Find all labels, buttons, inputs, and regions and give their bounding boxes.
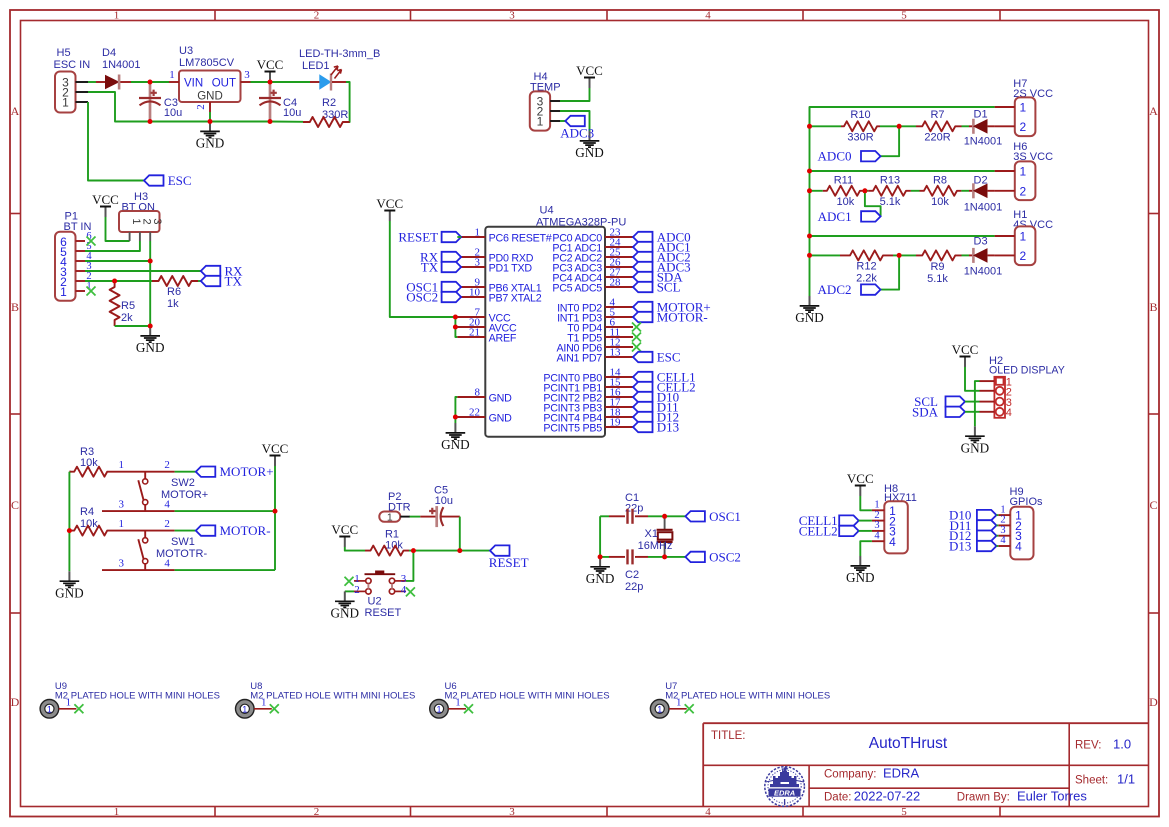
wire VCC to H8.1 <box>860 496 872 510</box>
junction AREF <box>453 325 458 330</box>
svg-text:ADC1: ADC1 <box>818 209 852 224</box>
svg-text:GND: GND <box>136 340 165 355</box>
U3 pin 1 <box>169 81 179 83</box>
junction bus row1 <box>807 124 812 129</box>
svg-text:M2 PLATED HOLE WITH MINI HOLES: M2 PLATED HOLE WITH MINI HOLES <box>55 691 220 702</box>
svg-text:OSC1: OSC1 <box>709 509 741 524</box>
no-connect U4 pin 11 <box>632 333 641 342</box>
no-connect P1.6 <box>87 237 96 246</box>
wire bus R3 <box>69 471 71 473</box>
net flag ESC <box>144 175 164 185</box>
svg-text:R10: R10 <box>850 109 870 121</box>
ground reset <box>344 591 346 601</box>
svg-text:4: 4 <box>705 10 711 22</box>
svg-text:1: 1 <box>455 698 460 709</box>
net flag RX to U4 <box>442 252 462 262</box>
svg-text:1: 1 <box>676 698 681 709</box>
svg-text:3: 3 <box>118 558 124 570</box>
wire U2.2 to gnd <box>345 590 354 592</box>
wire R5 to gnd <box>115 325 151 327</box>
resistor R2 <box>303 117 350 127</box>
net flag TX <box>201 276 221 286</box>
U4 pin 10 PB7 XTAL2 <box>457 296 485 298</box>
wire D10 <box>996 514 998 516</box>
junction bus row3b <box>807 253 812 258</box>
U4 pin 6 T0 PD4 <box>605 326 633 328</box>
connector H3 BT ON <box>119 211 160 232</box>
svg-text:4: 4 <box>164 499 170 511</box>
net flag SCL <box>946 396 966 406</box>
VCC symbol HX711 <box>859 486 861 497</box>
svg-text:Sheet:: Sheet: <box>1075 775 1108 787</box>
connector H8 HX711 <box>884 501 908 553</box>
net flag OSC2 to U4 <box>442 292 462 302</box>
junction ADC2 <box>897 253 902 258</box>
svg-text:LM7805CV: LM7805CV <box>179 57 235 69</box>
connector P2 DTR <box>379 512 400 522</box>
wire bus to R10 <box>810 125 842 127</box>
wire D12 <box>996 535 998 537</box>
svg-text:3: 3 <box>509 10 515 22</box>
svg-text:10k: 10k <box>837 196 855 208</box>
svg-text:21: 21 <box>469 327 480 339</box>
U4 pin 23 PC0 ADC0 <box>605 236 633 238</box>
P1 pin stubs <box>76 240 86 242</box>
wire LED to R2 <box>346 82 350 122</box>
P2 pin stub <box>400 516 410 518</box>
svg-text:MOTOR-: MOTOR- <box>220 523 271 538</box>
svg-text:R6: R6 <box>167 286 181 298</box>
wire C1 to OSC1 <box>648 515 685 517</box>
svg-text:VCC: VCC <box>92 192 119 207</box>
svg-text:U2: U2 <box>368 596 382 608</box>
svg-text:GND: GND <box>441 437 470 452</box>
wire P1.3 RX <box>85 270 201 272</box>
svg-text:OSC2: OSC2 <box>406 290 438 305</box>
junction C3 bottom <box>148 119 153 124</box>
connector H7 2S VCC <box>1015 97 1036 136</box>
svg-text:Company:: Company: <box>824 769 876 781</box>
VCC symbol reset <box>344 537 346 548</box>
svg-text:1N4001: 1N4001 <box>964 202 1003 214</box>
svg-text:1: 1 <box>60 285 67 299</box>
ground switches <box>68 571 70 581</box>
svg-text:2: 2 <box>1019 184 1026 198</box>
wire P2 to C5 <box>410 516 421 518</box>
U9 pin stub <box>59 708 77 710</box>
svg-text:GND: GND <box>961 441 990 456</box>
svg-text:2022-07-22: 2022-07-22 <box>854 789 921 804</box>
diode D4 <box>106 76 119 89</box>
ground U4 <box>454 423 456 433</box>
svg-text:2: 2 <box>314 10 320 22</box>
svg-text:ESC: ESC <box>657 350 681 365</box>
U4 pin 28 PC5 ADC5 <box>605 286 633 288</box>
svg-text:22: 22 <box>469 407 480 419</box>
svg-text:VCC: VCC <box>576 63 603 78</box>
svg-text:220R: 220R <box>924 132 950 144</box>
junction C3 top <box>148 80 153 85</box>
svg-text:VCC: VCC <box>952 342 979 357</box>
capacitor C5 <box>435 506 438 527</box>
U4 pin 19 PCINT5 PB5 <box>605 426 633 428</box>
svg-text:MOTOR-: MOTOR- <box>657 310 708 325</box>
wire P1.2 to R6 <box>85 280 152 282</box>
wire bus to R12 <box>810 254 841 256</box>
svg-text:ADC0: ADC0 <box>818 149 852 164</box>
svg-text:GND: GND <box>196 136 225 151</box>
svg-text:RESET: RESET <box>489 555 529 570</box>
net flag CELL2 <box>839 526 859 536</box>
ground OLED <box>974 426 976 436</box>
U4 pin 26 PC3 ADC3 <box>605 266 633 268</box>
svg-text:R11: R11 <box>834 174 853 186</box>
junction bus row2b <box>807 188 812 193</box>
svg-text:TITLE:: TITLE: <box>711 730 746 742</box>
net flag D10 <box>633 392 653 402</box>
wire to ADC0 flag <box>881 126 900 156</box>
net flag MOTOR- <box>196 525 216 535</box>
wire CELL2 <box>859 530 872 532</box>
svg-text:2: 2 <box>314 806 320 818</box>
svg-text:28: 28 <box>610 277 622 289</box>
U4 pin 9 PB6 XTAL1 <box>457 286 485 288</box>
svg-text:GND: GND <box>846 570 875 585</box>
wire H4.1 to ADC3 <box>560 120 565 122</box>
wire SW1.4 to VCC bus <box>175 569 275 571</box>
capacitor C3 <box>149 82 152 122</box>
svg-text:2: 2 <box>1019 120 1026 134</box>
U4 pin 3 PD1 TXD <box>457 266 485 268</box>
svg-text:D13: D13 <box>949 539 971 554</box>
svg-text:GND: GND <box>489 413 513 425</box>
svg-text:1: 1 <box>387 511 393 523</box>
U4 pin 7 VCC <box>457 316 485 318</box>
H9 pin stubs <box>998 514 1010 516</box>
VCC symbol <box>269 72 271 83</box>
resistor R4 <box>69 526 112 536</box>
svg-text:2: 2 <box>354 584 360 596</box>
svg-text:GND: GND <box>795 310 824 325</box>
VCC symbol U4 <box>389 211 391 222</box>
net flag ADC0 <box>633 232 653 242</box>
svg-text:4: 4 <box>1006 407 1012 419</box>
svg-text:LED1: LED1 <box>302 60 330 72</box>
wire D13 <box>996 545 998 547</box>
U2 pins <box>366 578 371 583</box>
wire C5 to RESET net <box>459 517 461 551</box>
svg-text:2: 2 <box>164 518 170 530</box>
wire D4 to VIN <box>131 81 169 83</box>
svg-text:A: A <box>11 104 20 118</box>
svg-text:3: 3 <box>151 218 163 224</box>
wire H2.1 to gnd <box>975 381 980 426</box>
wire to U2.3 <box>406 551 413 581</box>
junction ADC1 <box>862 188 867 193</box>
H6 pin stubs <box>995 170 1015 172</box>
resistor R3 <box>69 467 112 477</box>
U4 pin 25 PC2 ADC2 <box>605 256 633 258</box>
resistor R9 <box>916 250 962 260</box>
wire U3 pin2 to rail <box>209 112 211 122</box>
svg-text:1: 1 <box>66 698 71 709</box>
net flag MOTOR+ <box>196 467 216 477</box>
svg-text:10u: 10u <box>435 495 453 507</box>
junction BT ON <box>148 259 153 264</box>
svg-text:GND: GND <box>55 586 84 601</box>
wire H8.4 to gnd <box>860 541 872 556</box>
svg-text:GND: GND <box>575 145 604 160</box>
svg-text:1: 1 <box>130 218 142 224</box>
svg-text:1N4001: 1N4001 <box>964 266 1003 278</box>
svg-text:REV:: REV: <box>1075 740 1101 752</box>
LED LED1 <box>310 81 320 83</box>
U4 pin 18 PCINT4 PB4 <box>605 416 633 418</box>
svg-text:R9: R9 <box>930 261 944 273</box>
diode D4 leads <box>96 81 106 83</box>
svg-text:ADC3: ADC3 <box>560 126 594 141</box>
resistor R11 <box>823 186 864 196</box>
junction crystal gnd <box>598 554 603 559</box>
junction ADC0 <box>897 124 902 129</box>
net flag ADC1 shape <box>861 211 881 221</box>
net flag CELL1 <box>839 515 859 525</box>
U4 pin 1 PC6 RESET# <box>457 236 485 238</box>
net flag D13 to H9 <box>977 541 997 551</box>
net flag ADC1 <box>633 242 653 252</box>
svg-text:1: 1 <box>169 69 175 81</box>
U2 pin stubs <box>354 580 366 582</box>
svg-text:B: B <box>1149 300 1157 314</box>
svg-text:3: 3 <box>475 257 481 269</box>
svg-text:16MHz: 16MHz <box>638 540 673 552</box>
net flag OSC2 <box>685 552 705 562</box>
junction C4 top <box>268 80 273 85</box>
svg-text:X1: X1 <box>645 528 658 540</box>
border column ticks <box>214 10 216 21</box>
svg-text:PC6 RESET#: PC6 RESET# <box>489 233 552 245</box>
H4 pin stubs <box>550 100 560 102</box>
wire U4 pin8 gnd <box>455 397 457 417</box>
no-connect U8 <box>270 704 279 713</box>
wire U4 pin22 gnd <box>455 417 457 423</box>
svg-text:R12: R12 <box>856 260 876 272</box>
svg-text:M2 PLATED HOLE WITH MINI HOLES: M2 PLATED HOLE WITH MINI HOLES <box>665 691 830 702</box>
diode D2 <box>972 183 975 198</box>
title block outline <box>703 723 1148 806</box>
resistor R7 <box>916 121 962 131</box>
svg-text:22p: 22p <box>625 581 643 593</box>
net flag ADC3 <box>633 262 653 272</box>
switch SW2 row2 <box>102 510 175 512</box>
net flag RESET shape <box>490 545 510 555</box>
wire R9 to D3 <box>962 254 970 256</box>
U4 pin 27 PC4 ADC4 <box>605 276 633 278</box>
svg-text:D1: D1 <box>974 108 988 120</box>
resistor R13 <box>868 186 911 196</box>
ground battery bus <box>809 296 811 306</box>
switch SW1 row2 <box>102 569 175 571</box>
svg-text:1: 1 <box>114 806 120 818</box>
svg-text:GND: GND <box>197 91 223 103</box>
wire H5.3 to D4 <box>88 81 96 83</box>
plated hole U7 <box>650 700 669 719</box>
svg-text:M2 PLATED HOLE WITH MINI HOLES: M2 PLATED HOLE WITH MINI HOLES <box>250 691 415 702</box>
H5 pin 2 stub <box>76 91 89 93</box>
wire H4.3 to VCC <box>560 88 590 101</box>
wire bus to R11 <box>810 190 823 192</box>
VCC symbol TEMP <box>589 78 591 89</box>
wire SCL to H2.3 <box>965 401 980 403</box>
svg-text:10u: 10u <box>164 107 182 119</box>
net flag OSC1 <box>685 511 705 521</box>
svg-text:SW2: SW2 <box>171 477 195 489</box>
svg-text:PD1 TXD: PD1 TXD <box>489 263 533 275</box>
net flag ADC0 <box>861 151 881 161</box>
net flag D10 to H9 <box>977 510 997 520</box>
capacitor C1 <box>626 509 628 524</box>
svg-text:5: 5 <box>901 806 907 818</box>
junction C4 bottom <box>268 119 273 124</box>
svg-text:Drawn By:: Drawn By: <box>957 792 1010 804</box>
junction reset 1 <box>411 548 416 553</box>
svg-text:D4: D4 <box>102 47 116 59</box>
svg-text:PCINT5 PB5: PCINT5 PB5 <box>543 423 602 435</box>
svg-text:1: 1 <box>118 459 124 471</box>
H5 pin 1 stub <box>76 101 89 103</box>
wire VCC bus switches <box>274 466 276 570</box>
svg-text:1: 1 <box>537 115 544 129</box>
VCC symbol BT <box>105 207 107 218</box>
svg-text:3: 3 <box>118 499 124 511</box>
H3 pin stubs <box>129 232 131 241</box>
svg-text:2: 2 <box>1019 249 1026 263</box>
junction SW2.4 <box>273 509 278 514</box>
svg-text:PC5 ADC5: PC5 ADC5 <box>552 283 602 295</box>
svg-text:VCC: VCC <box>257 57 284 72</box>
wire SW2.2 to MOTOR+ <box>175 471 196 473</box>
junction U4 gnd <box>453 415 458 420</box>
IC U4 ATMEGA328P-PU <box>485 227 605 437</box>
net flag D13 <box>633 422 653 432</box>
plated hole U8 <box>236 700 255 719</box>
net flag D12 to H9 <box>977 531 997 541</box>
ground BT <box>149 326 151 336</box>
wire gnd rail <box>150 121 270 123</box>
svg-text:1: 1 <box>62 96 69 110</box>
svg-text:D: D <box>1149 695 1158 709</box>
diode D3 <box>972 248 975 263</box>
svg-text:M2 PLATED HOLE WITH MINI HOLES: M2 PLATED HOLE WITH MINI HOLES <box>445 691 610 702</box>
svg-text:MOTOR+: MOTOR+ <box>220 464 274 479</box>
junction gnd BT <box>148 324 153 329</box>
wire R10 to R7 <box>880 125 916 127</box>
junction AVCC <box>453 315 458 320</box>
U4 pin 15 PCINT1 PB1 <box>605 386 633 388</box>
svg-text:2.2k: 2.2k <box>856 272 877 284</box>
svg-text:1: 1 <box>114 10 120 22</box>
svg-text:AutoTHrust: AutoTHrust <box>869 735 948 752</box>
svg-text:1: 1 <box>261 698 266 709</box>
svg-text:TX: TX <box>421 260 439 275</box>
svg-text:3: 3 <box>244 69 250 81</box>
svg-text:R7: R7 <box>930 109 944 121</box>
C5 right lead <box>441 516 459 518</box>
wire H6.1 to bus <box>810 170 995 172</box>
wire H5.1 to ESC flag <box>88 102 144 181</box>
U4 pin 4 INT0 PD2 <box>605 306 633 308</box>
svg-text:AIN1 PD7: AIN1 PD7 <box>556 353 602 365</box>
svg-text:CELL2: CELL2 <box>799 523 838 538</box>
no-connect U7 <box>685 704 694 713</box>
svg-text:1: 1 <box>118 518 124 530</box>
svg-text:4: 4 <box>705 806 711 818</box>
switch SW1 lever <box>144 531 146 538</box>
wire R7 to D1 <box>962 125 970 127</box>
net flag D11 <box>633 402 653 412</box>
wire OUT to LED <box>251 81 311 83</box>
svg-text:C: C <box>1149 498 1157 512</box>
wire H4.2 to gnd <box>560 111 590 131</box>
U4 pin 5 INT1 PD3 <box>605 316 633 318</box>
svg-text:4: 4 <box>874 530 880 541</box>
connector H6 3S VCC <box>1015 161 1036 200</box>
svg-text:4: 4 <box>1015 539 1022 553</box>
svg-text:R2: R2 <box>322 97 336 109</box>
svg-text:R8: R8 <box>933 174 947 186</box>
net flag TX to U4 <box>442 262 462 272</box>
U4 pin 11 T1 PD5 <box>605 336 633 338</box>
svg-text:SW1: SW1 <box>171 536 195 548</box>
svg-text:U4: U4 <box>540 205 554 217</box>
svg-text:19: 19 <box>610 417 622 429</box>
resistor R1 <box>365 546 409 556</box>
wire R1 to RESET flag <box>409 550 490 552</box>
junction X1 bottom <box>662 554 667 559</box>
H2 pin stubs <box>980 380 995 382</box>
C5 left lead <box>420 516 435 518</box>
svg-text:B: B <box>11 300 19 314</box>
wire C2 to OSC2 <box>648 556 685 558</box>
U4 pin 22 GND <box>457 416 485 418</box>
svg-text:10u: 10u <box>283 107 301 119</box>
svg-text:2: 2 <box>164 459 170 471</box>
no-connect U9 <box>74 704 83 713</box>
svg-text:U3: U3 <box>179 45 193 57</box>
switch SW1 row1 <box>112 530 175 532</box>
ground U3 <box>209 122 211 132</box>
svg-text:Date:: Date: <box>824 792 852 804</box>
resistor R12 <box>840 250 893 260</box>
H7 pin stubs <box>995 106 1015 108</box>
junction R5 top <box>112 279 117 284</box>
svg-text:AREF: AREF <box>489 333 517 345</box>
VCC symbol switches <box>274 456 276 467</box>
wire R8 to D2 <box>961 190 969 192</box>
wire VCC to R1 <box>345 547 365 551</box>
svg-text:10: 10 <box>469 287 481 299</box>
net flag D12 <box>633 412 653 422</box>
junction U3 GND <box>208 119 213 124</box>
svg-text:OLED DISPLAY: OLED DISPLAY <box>989 365 1065 377</box>
wire VCC to H3.1 <box>106 217 130 241</box>
wire CELL1 <box>859 520 872 522</box>
svg-text:5.1k: 5.1k <box>927 273 948 285</box>
U4 pin 17 PCINT3 PB3 <box>605 406 633 408</box>
ground HX711 <box>859 556 861 566</box>
EDRA logo <box>765 767 805 807</box>
U4 pin 12 AIN0 PD6 <box>605 346 633 348</box>
